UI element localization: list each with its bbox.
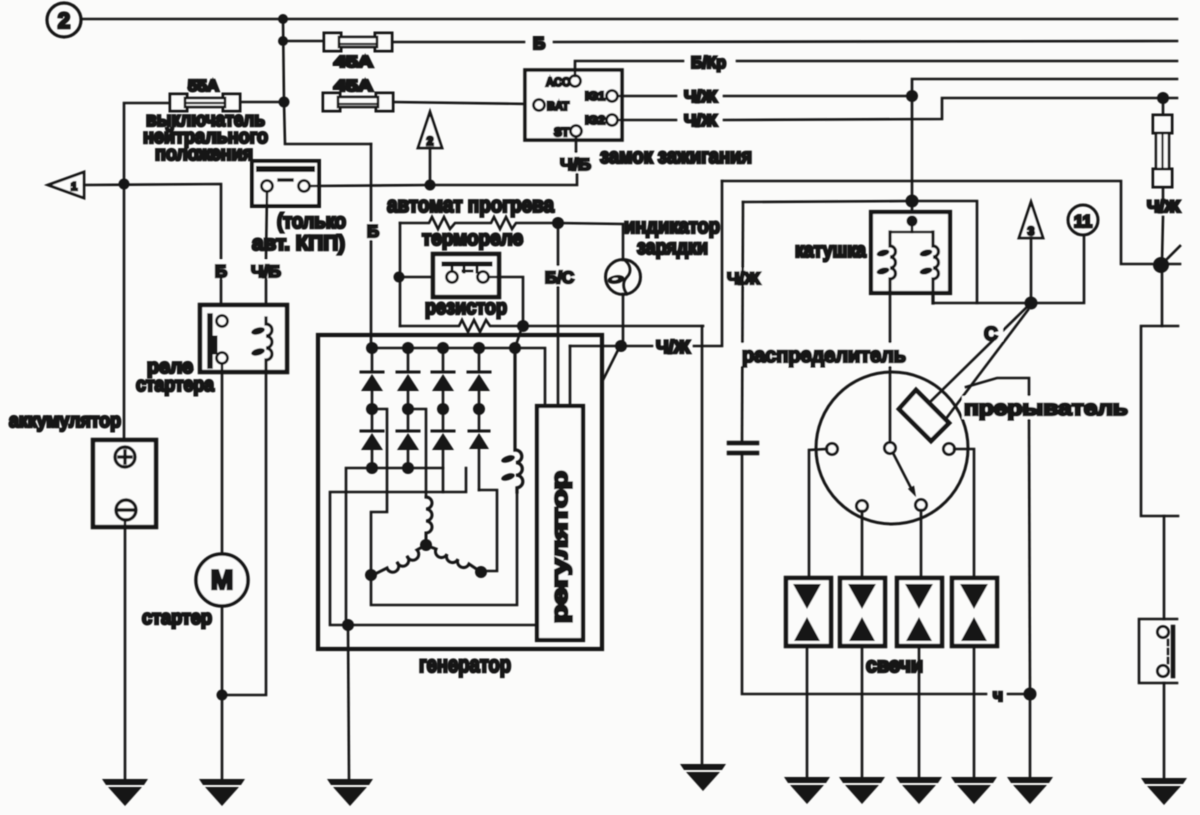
distributor right terminal [944, 444, 955, 455]
relay starter box [200, 305, 287, 372]
diode D3 top [432, 348, 454, 409]
wire battery column down [123, 184, 126, 448]
svg-text:Б: Б [533, 34, 545, 53]
label Б/С [544, 266, 575, 287]
node junction triangle2 tap [425, 180, 436, 191]
wire resistor bottom line [400, 320, 703, 332]
wire КПП left contact down [266, 192, 267, 258]
indicator lamp [606, 259, 641, 295]
wire lower bus [346, 468, 443, 625]
label C [981, 321, 1003, 345]
diode D1 top [361, 348, 383, 409]
svg-text:IG1: IG1 [585, 89, 605, 103]
label прерыватель [962, 396, 1132, 420]
svg-text:Ч/Ж: Ч/Ж [684, 112, 717, 130]
ground generator [327, 779, 373, 806]
diode D4 top [468, 348, 490, 409]
wire ST down with label gap [575, 137, 578, 153]
wire ч dash to junction [1008, 693, 1023, 696]
ground breaker line [1007, 777, 1053, 804]
svg-text:Ч/Б: Ч/Б [560, 156, 591, 174]
wire IG1 feed down to coil [911, 96, 914, 221]
svg-text:стартер: стартер [142, 607, 212, 629]
label Б generator feed [364, 222, 382, 241]
ground starter [199, 779, 245, 806]
node junction on line 1 [278, 14, 288, 24]
svg-text:Ч/Ж: Ч/Ж [1147, 198, 1180, 216]
ground battery [102, 779, 148, 806]
wire regulator lamp line Ч/Ж [570, 181, 722, 346]
distributor left terminal [827, 444, 838, 455]
wire bottom right terminal to plug 3 [920, 510, 923, 578]
wire triangle 2 stub [429, 148, 432, 185]
relay КПП contact left [262, 181, 273, 192]
wire thermal left vertical [399, 223, 402, 326]
wire bracket to connector box [1163, 516, 1166, 619]
stator winding left coil [373, 546, 424, 575]
wire generator B+ bus [371, 348, 545, 406]
node coil inner junction [907, 216, 918, 227]
wire phase1 elbow [371, 409, 387, 570]
svg-text:резистор: резистор [425, 296, 507, 319]
node junction right fuse top [1157, 92, 1169, 104]
diode D2 top [397, 348, 419, 409]
ignition lock box замок зажигания [525, 70, 622, 140]
label индикатор зарядки [624, 215, 720, 259]
stator winding middle coil [426, 497, 432, 545]
node junction thermal relay left [394, 272, 405, 283]
breaker cable line B [945, 310, 1028, 420]
terminal IG1 [607, 91, 618, 102]
wire ST line continue [430, 172, 577, 185]
node phase node 4 [473, 403, 485, 415]
svg-text:зарядки: зарядки [637, 236, 708, 259]
relay starter coil lobes [250, 326, 265, 357]
connector circle 2 [47, 3, 81, 37]
node junction IG1 [906, 90, 918, 102]
svg-text:11: 11 [1074, 212, 1092, 231]
svg-text:генератор: генератор [419, 651, 511, 677]
stator winding right coil [428, 546, 481, 572]
label распределитель [740, 343, 908, 367]
ground plug 2 [839, 777, 885, 804]
ground capacitor branch [680, 764, 726, 791]
spark plug 1 [786, 578, 831, 646]
field winding coil [515, 348, 523, 492]
triangle ref 3 [1019, 202, 1043, 238]
wire Ч/Б pin into relay coil [265, 279, 268, 318]
wire КПП right contact to ST line [310, 185, 430, 186]
svg-text:M: M [211, 565, 234, 595]
relay КПП armature bar [259, 166, 312, 172]
wire thermal relay right contact to resistor line [489, 277, 523, 326]
label (только авт. КПП) [252, 210, 346, 255]
svg-text:C: C [984, 324, 998, 345]
wire IG2 Ч/Ж line [618, 98, 1177, 120]
svg-text:автомат прогрева: автомат прогрева [387, 192, 555, 217]
wire switch down to component bracket [1161, 268, 1164, 326]
svg-text:BAT: BAT [547, 99, 570, 113]
svg-text:3: 3 [1028, 224, 1035, 238]
svg-text:аккумулятор: аккумулятор [9, 410, 121, 432]
wire slant to generator bus [515, 327, 522, 348]
wire ACC up and right Б/Кр [575, 61, 1177, 76]
node junction HT line [1025, 297, 1038, 310]
coil primary winding [876, 232, 896, 293]
wire plug 1 to ground [806, 646, 809, 777]
distributor center terminal [885, 443, 896, 454]
right fuse vertical [1153, 98, 1172, 198]
node lower node 1 [366, 462, 378, 474]
connector switch box right [1139, 619, 1177, 683]
wire triangle 1 to relay pin [84, 184, 221, 258]
node junction at 45A F2 tap [279, 97, 290, 108]
svg-text:свечи: свечи [866, 654, 923, 677]
wire coil primary to distributor [889, 293, 892, 443]
thermal relay contact right [478, 272, 489, 283]
relay starter contact bottom [217, 353, 228, 364]
relay starter contact top [217, 316, 228, 327]
wire slant lamp junction to generator edge [603, 348, 619, 380]
breaker pointer line [966, 378, 1030, 694]
breaker cable line A [930, 303, 1031, 402]
svg-text:Ч/Ж: Ч/Ж [684, 88, 717, 106]
diode D3 bottom [432, 409, 454, 492]
spark plug 4 [952, 578, 997, 646]
wire Б feeder down to generator [370, 144, 373, 348]
terminal IG2 [607, 115, 618, 126]
label Ч/Ж right branch [726, 268, 764, 288]
thermal relay dash [463, 270, 472, 273]
node phase node 2 [402, 403, 414, 415]
wire capacitor branch vertical [742, 202, 743, 441]
wire plug 2 to ground [861, 646, 864, 777]
wire Б line from F1 to right edge [392, 41, 1177, 42]
wire Б/С from thermal junction to regulator [557, 223, 560, 406]
ground right column [1141, 778, 1187, 805]
wire plug 4 to ground [973, 646, 976, 777]
node junction lamp to generator line [615, 340, 627, 352]
node phase left end [365, 569, 377, 581]
distributor bottom right terminal [916, 500, 927, 511]
relay КПП contact right [299, 181, 310, 192]
svg-text:2: 2 [58, 8, 70, 33]
relay contact (только авт. КПП) box [252, 161, 319, 206]
svg-text:(только: (только [277, 210, 346, 233]
thermal relay bimetal bar [444, 264, 490, 272]
svg-text:индикатор: индикатор [624, 215, 720, 238]
wire thermal top line with resistors [400, 217, 558, 229]
wire generator ground column [348, 625, 349, 779]
node junction at 45A F1 tap [278, 36, 288, 46]
fuse 45A F2 [323, 93, 393, 111]
wire lamp circuit down to ground [701, 326, 704, 765]
relay starter switch bar [210, 316, 215, 366]
node junction battery column [119, 179, 130, 190]
terminal BAT [534, 100, 545, 111]
terminal ACC [570, 76, 581, 87]
label Ч/Б starter relay coil pin [250, 260, 283, 281]
wire to thermal relay contact [399, 276, 446, 279]
wire phase left to field loop [371, 488, 517, 605]
node phase right end [475, 566, 487, 578]
wire right terminal to plug 4 [954, 449, 974, 578]
wire triangle 3 stub [1030, 238, 1033, 303]
node bus dot 5 [509, 342, 521, 354]
relay КПП contact dash [279, 178, 292, 181]
label Ч/Б under ST [558, 153, 594, 174]
wire relay coil down and to starter column [222, 372, 266, 695]
node junction starter ground [217, 690, 228, 701]
thermal relay box [433, 254, 499, 297]
node bus dot 1 [366, 342, 378, 354]
svg-text:распределитель: распределитель [742, 344, 906, 367]
wire left terminal to plug 1 [809, 449, 827, 578]
triangle ref 2 [418, 112, 442, 148]
wire coil HT output line [933, 235, 1084, 303]
battery minus terminal [116, 500, 136, 520]
node junction ч ground [1024, 688, 1037, 701]
node junction gen ground [342, 619, 354, 631]
svg-text:замок зажигания: замок зажигания [600, 145, 752, 168]
coil secondary winding [919, 232, 939, 303]
ground plug 3 [896, 777, 942, 804]
wire fuse to switch [1162, 217, 1163, 262]
svg-text:1: 1 [71, 181, 77, 193]
distributor rotor arm [893, 453, 916, 497]
svg-text:ACC: ACC [546, 75, 570, 89]
svg-text:регулятор: регулятор [547, 471, 572, 623]
wire starter M to ground [221, 606, 224, 779]
node bus dot 4 [473, 342, 485, 354]
svg-text:Б/С: Б/С [545, 269, 574, 287]
spark plug 3 [897, 578, 942, 646]
wire lamp bottom [622, 294, 625, 346]
regulator box [537, 406, 583, 640]
wire Б pin into relay [220, 279, 223, 316]
ground plug 1 [784, 777, 830, 804]
field winding lobes [500, 454, 515, 482]
svg-text:стартера: стартера [136, 374, 215, 396]
wire IG1 Ч/Ж line [618, 95, 912, 98]
breaker rotated box [899, 390, 949, 441]
wire mid line y492 [330, 468, 537, 625]
label Б starter relay pin [212, 260, 234, 281]
distributor circle [816, 372, 968, 524]
svg-text:Ч/Ж: Ч/Ж [656, 337, 691, 357]
wire ч junction to ground [1029, 694, 1032, 777]
node junction coil feed [906, 195, 919, 208]
ground plug 4 [951, 777, 997, 804]
terminal ST [571, 126, 582, 137]
wire 55A fuse left to battery column [124, 103, 170, 184]
wire bottom left terminal to plug 2 [861, 511, 864, 578]
wire F2 to BAT terminal [393, 102, 533, 104]
coil inner top wires [911, 221, 914, 232]
fuse 45A F1 [324, 33, 392, 51]
node phase node 1 [366, 403, 378, 415]
wire top bus line 1 [81, 18, 1177, 21]
svg-text:прерыватель: прерыватель [964, 397, 1128, 420]
svg-text:Б: Б [367, 222, 379, 241]
wire phase4 elbow [479, 490, 497, 571]
distributor bottom left terminal [857, 501, 868, 512]
triangle ref 1 [48, 172, 84, 198]
diode D4 bottom [469, 409, 489, 490]
wire from feeder to fuse F1 [283, 40, 324, 43]
svg-text:ч: ч [993, 686, 1003, 705]
fuse 55A [170, 94, 240, 111]
wire Б feeder elbow from fuse junction [284, 102, 371, 144]
node junction Б/С tap [552, 217, 564, 229]
node junction resistor line [517, 320, 529, 332]
relay starter coil [266, 318, 272, 372]
thermal relay contact left [447, 272, 458, 283]
spark plug 2 [840, 578, 885, 646]
connector circle 11 [1068, 205, 1098, 235]
wire vertical fuse feeder [283, 19, 284, 102]
node phase node 3 [437, 403, 449, 415]
wire 55A fuse to feeder junction [240, 101, 284, 104]
node bus dot 3 [437, 342, 449, 354]
wire loop top line to switch column [722, 181, 1152, 264]
wire capacitor bottom to ч line [742, 453, 986, 694]
svg-text:ST: ST [554, 125, 570, 139]
wire plug 3 to ground [918, 646, 921, 777]
svg-text:2: 2 [427, 134, 434, 148]
wire top line to lamp elbow [558, 223, 623, 260]
svg-text:термореле: термореле [422, 227, 523, 250]
battery plus terminal [115, 447, 135, 467]
label реле стартера [136, 356, 215, 396]
svg-text:Б/Кр: Б/Кр [691, 54, 726, 72]
node lower node 2 [402, 462, 414, 474]
wire relay switch pin to starter M [221, 364, 224, 554]
node bus dot 2 [402, 342, 414, 354]
ignition coil box [871, 212, 950, 293]
diode D2 bottom [397, 409, 419, 468]
battery box [93, 440, 156, 527]
switch contact [1153, 246, 1180, 273]
svg-text:55A: 55A [188, 78, 219, 95]
wire phase2 elbow [408, 409, 426, 497]
svg-text:IG2: IG2 [585, 113, 605, 127]
svg-text:45A: 45A [334, 54, 374, 71]
wire battery minus to ground [124, 520, 127, 779]
label выключатель нейтрального положения [143, 109, 268, 165]
wire connector box to ground [1163, 683, 1166, 778]
wire IG1 junction elbow up right [912, 79, 1177, 96]
component bracket right edge cut [1141, 326, 1178, 516]
capacitor [729, 443, 757, 453]
svg-text:положения: положения [155, 143, 253, 165]
node star point [420, 539, 432, 551]
diode D1 bottom [361, 409, 383, 468]
wire regulator lamp terminal [569, 346, 572, 406]
svg-text:катушка: катушка [795, 239, 866, 262]
wire coil primary feed line [743, 201, 977, 303]
generator box [318, 335, 602, 649]
starter motor M [196, 554, 248, 606]
